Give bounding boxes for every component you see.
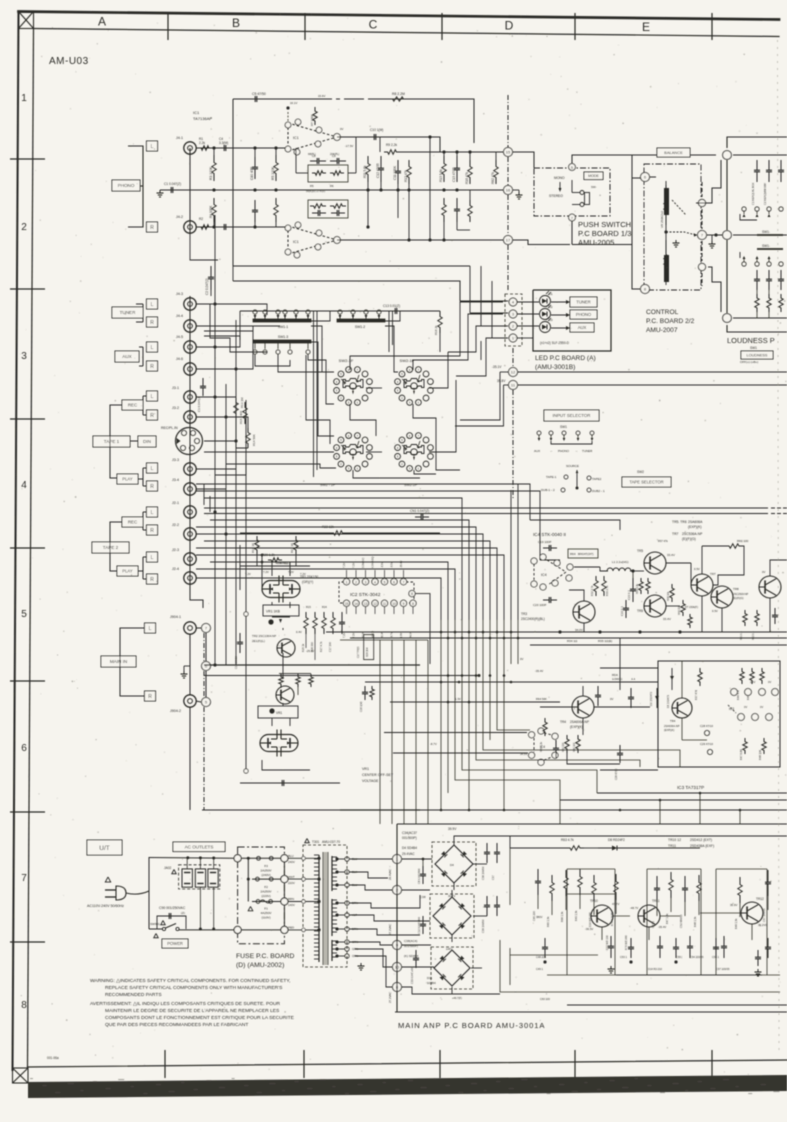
svg-text:R82 47k: R82 47k	[491, 172, 495, 184]
resistor R8	[388, 97, 408, 101]
ground reg 1	[610, 966, 612, 969]
wire matrix extra h1	[204, 330, 253, 332]
svg-text:2SA606A-NP: 2SA606A-NP	[570, 720, 589, 724]
svg-text:2SA606A-NP: 2SA606A-NP	[664, 724, 680, 728]
regulator columns	[537, 869, 539, 881]
transistor TR6	[644, 595, 666, 617]
svg-text:TUNER: TUNER	[576, 300, 590, 305]
jack J4-4	[184, 320, 196, 332]
resistor R37	[698, 668, 702, 686]
wire tape1 play bracket	[143, 467, 146, 469]
grid row ticks	[10, 158, 45, 160]
capacitor C39	[486, 896, 488, 905]
svg-text:R8 2.2M: R8 2.2M	[392, 92, 405, 96]
svg-text:R18 2k: R18 2k	[434, 325, 438, 335]
rotary switch SW2-1P	[407, 367, 413, 373]
svg-text:F2: F2	[264, 885, 268, 889]
wire bundle mid verticals	[440, 620, 442, 664]
svg-text:(EXP)(K): (EXP)(K)	[664, 728, 675, 732]
input group TAPE 1 label	[93, 436, 130, 447]
node pin T2	[393, 886, 402, 895]
IC2 pin row top	[343, 579, 349, 585]
svg-text:2.2k: 2.2k	[199, 141, 205, 145]
switch SW contacts	[580, 191, 584, 195]
svg-text:J4-6: J4-6	[176, 357, 183, 361]
svg-text:2A250V: 2A250V	[260, 890, 272, 894]
resistor R82	[494, 160, 498, 184]
wire tape1 bracket	[110, 405, 122, 478]
svg-text:7.2V: 7.2V	[353, 563, 356, 568]
ground reg 2	[757, 969, 759, 972]
svg-text:C39 100/50: C39 100/50	[481, 919, 485, 933]
node fuse out 140	[281, 898, 288, 905]
IC2 pin row bottom	[343, 600, 349, 606]
node fuse in bottom	[234, 926, 241, 933]
svg-text:VR1: VR1	[362, 767, 369, 771]
input group REC label (tape2)	[122, 517, 143, 527]
wire rail drops	[558, 630, 561, 633]
svg-text:2SA608A: 2SA608A	[688, 520, 703, 524]
node pin 16	[504, 186, 513, 195]
resistor R15	[243, 402, 247, 424]
svg-text:TR2 2SC1364-NP: TR2 2SC1364-NP	[252, 634, 276, 638]
svg-text:R2: R2	[199, 217, 203, 221]
wire tr3 bias	[569, 590, 584, 601]
svg-text:(240V): (240V)	[261, 873, 270, 877]
loudness contact extra	[779, 207, 783, 211]
svg-text:SW1-: SW1-	[762, 230, 770, 234]
grid bottom ticks	[164, 1050, 166, 1078]
LED D2	[540, 309, 551, 320]
wire lower rail 2	[233, 281, 460, 301]
capacitor CN1	[415, 516, 421, 518]
jack J904-2	[184, 695, 196, 707]
svg-text:-36.5V: -36.5V	[585, 927, 593, 931]
loudness contacts row 1	[742, 207, 746, 211]
svg-text:R25 1k: R25 1k	[301, 643, 305, 652]
capacitor C16c	[277, 782, 282, 784]
svg-text:C38: C38	[420, 895, 426, 899]
wire mode pin7 down	[571, 221, 573, 245]
wire fet stage	[261, 554, 264, 557]
svg-text:R5: R5	[310, 184, 314, 188]
svg-text:D1: D1	[549, 292, 553, 296]
wire bars to rotary	[311, 326, 334, 372]
svg-text:-35.4V: -35.4V	[535, 669, 543, 673]
resistor R16	[468, 160, 472, 184]
rotary switch SW2-2P	[407, 433, 413, 439]
resistor R1	[198, 146, 212, 150]
wire rotary outputs	[366, 387, 382, 389]
svg-text:LOUDNESS P: LOUDNESS P	[727, 336, 775, 345]
wire matrix mesh	[196, 304, 267, 315]
wire reg rail y975	[616, 974, 762, 976]
svg-text:6: 6	[393, 580, 395, 584]
transformer secondary winding	[331, 856, 333, 891]
capacitor C22	[625, 600, 627, 608]
svg-text:OFF(+)-(+B+): OFF(+)-(+B+)	[740, 360, 758, 364]
svg-text:RECOMMENDED PARTS: RECOMMENDED PARTS	[105, 992, 162, 998]
svg-text:2SD412 (EXT): 2SD412 (EXT)	[690, 838, 712, 842]
svg-text:001/500P): 001/500P)	[402, 836, 417, 840]
svg-text:TR4: TR4	[670, 719, 676, 723]
wire tape2 play bracket	[143, 556, 146, 558]
svg-text:-8.7V: -8.7V	[430, 742, 437, 746]
capacitor C3 boundary	[202, 378, 204, 386]
wire power verticals to amp	[529, 824, 531, 836]
svg-text:37.2VAC: 37.2VAC	[388, 924, 392, 935]
jack J3-2	[184, 411, 196, 423]
resistor R4	[212, 198, 216, 222]
svg-text:15: 15	[345, 602, 349, 606]
capacitor C48	[544, 938, 546, 947]
svg-text:-35.4V: -35.4V	[400, 560, 403, 568]
svg-text:16: 16	[506, 188, 511, 193]
svg-text:TR7: TR7	[672, 532, 679, 536]
wire secondary taps	[335, 857, 338, 860]
svg-text:C37: C37	[491, 875, 495, 880]
transistor TR5	[644, 552, 666, 574]
node tape2 play R box	[147, 574, 158, 584]
resistor R13a	[442, 156, 446, 182]
svg-text:0.5V: 0.5V	[712, 609, 718, 613]
fuse F1	[256, 900, 260, 904]
svg-text:16.1V: 16.1V	[290, 101, 297, 105]
node pin 5	[202, 698, 211, 707]
svg-text:J2-1: J2-1	[172, 501, 179, 505]
jack J4-3	[184, 298, 196, 310]
svg-text:(E)(F)(G): (E)(F)(G)	[682, 537, 696, 541]
IC4 opamp circles	[531, 558, 537, 564]
wire rotary bottoms to fan	[353, 470, 420, 478]
main board outline	[397, 823, 787, 825]
svg-text:7: 7	[403, 580, 405, 584]
input group MAIN IN label	[101, 656, 136, 667]
resistor R55	[646, 578, 650, 594]
svg-text:R34 1Ω: R34 1Ω	[567, 639, 578, 643]
wire pin17 to mode switch	[513, 240, 570, 245]
wire pin7 right	[707, 234, 723, 236]
wire to power right	[559, 800, 561, 824]
outlet box	[179, 865, 220, 889]
svg-text:2E1(F)(L): 2E1(F)(L)	[252, 639, 265, 643]
svg-text:MAIN IN: MAIN IN	[110, 659, 127, 664]
svg-text:0.5N 4.8Q: 0.5N 4.8Q	[372, 557, 375, 568]
svg-text:C11 100K: C11 100K	[393, 165, 397, 180]
wire fuse rails	[241, 857, 281, 859]
svg-text:VR1: VR1	[276, 711, 282, 715]
svg-text:D4 SD4B4: D4 SD4B4	[402, 846, 417, 850]
svg-text:R37 47K: R37 47K	[694, 690, 698, 700]
LED D3	[540, 322, 551, 333]
svg-text:MAIN ANP P.C BOARD AMU-30: MAIN ANP P.C BOARD AMU-3001A	[398, 1021, 545, 1030]
svg-text:0V: 0V	[340, 127, 344, 131]
svg-text:C49 1: C49 1	[536, 967, 543, 971]
svg-text:0V: 0V	[744, 705, 747, 709]
svg-text:R35 1Ω(E): R35 1Ω(E)	[598, 639, 612, 643]
input group TUNER label	[112, 307, 143, 318]
dual FET Q1 upper	[262, 581, 300, 598]
wire jack ground bus	[189, 148, 191, 234]
outlet 2	[195, 869, 205, 887]
capacitor C14a	[456, 198, 458, 209]
svg-text:R: R	[148, 694, 152, 700]
svg-text:DIN: DIN	[143, 439, 151, 444]
svg-text:SW2-1F: SW2-1F	[339, 358, 354, 363]
svg-text:R: R	[150, 577, 154, 583]
svg-text:0V: 0V	[762, 570, 766, 574]
wire C13 rail	[240, 310, 440, 312]
transistor TR11	[638, 905, 660, 927]
jack J3-1	[184, 391, 196, 403]
VR1 trim box upper	[263, 605, 299, 616]
svg-text:R32 2.7k: R32 2.7k	[590, 585, 594, 596]
node pin 8 control	[641, 285, 650, 294]
wire cross rails mid	[204, 664, 420, 666]
svg-text:DUB-1→2: DUB-1→2	[541, 488, 555, 492]
wire loudness feed top	[733, 154, 787, 156]
node tape1 rec L box	[147, 391, 158, 401]
svg-text:(Z): (Z)	[181, 911, 185, 915]
capacitor C8 smoothing	[422, 866, 424, 874]
svg-text:SW1: SW1	[750, 346, 757, 350]
resistor R40	[576, 735, 580, 753]
svg-text:B: B	[232, 16, 240, 30]
svg-text:J2-4: J2-4	[172, 567, 179, 571]
IC2 pin 8	[409, 590, 415, 596]
wire preamp left edge	[232, 99, 234, 266]
svg-text:R7 100K: R7 100K	[310, 114, 314, 126]
resistor R14	[246, 428, 250, 448]
svg-text:8: 8	[21, 1000, 27, 1011]
wire lower links	[582, 686, 584, 696]
input group REC label (tape1)	[122, 400, 143, 410]
svg-text:C12 47/35: C12 47/35	[376, 163, 380, 178]
svg-text:SW1-3: SW1-3	[278, 335, 288, 339]
svg-text:R49 1.5k: R49 1.5k	[734, 918, 738, 929]
node pin 17	[504, 236, 513, 245]
svg-text:R47 6.8K: R47 6.8K	[739, 749, 743, 760]
wire regulator links	[601, 927, 603, 940]
svg-text:REPLACE SAFETY CRITICAL COMPON: REPLACE SAFETY CRITICAL COMPONENTS ONLY …	[105, 985, 283, 991]
label U/T	[87, 840, 122, 855]
capacitor C4b	[218, 226, 224, 228]
svg-text:(GR)(Y): (GR)(Y)	[302, 580, 313, 584]
svg-text:-17.5V: -17.5V	[345, 144, 353, 148]
node fuse in top	[234, 855, 241, 862]
wire x246 extension	[245, 560, 247, 771]
svg-text:R27 4.7k: R27 4.7k	[319, 641, 323, 652]
ground transformer	[360, 963, 362, 966]
svg-text:R15 1400: R15 1400	[239, 411, 243, 424]
svg-text:R64: R64	[570, 552, 576, 556]
box C17 R29	[364, 635, 374, 660]
svg-text:380V: 380V	[536, 915, 543, 919]
svg-text:P.C BOARD 1/3: P.C BOARD 1/3	[578, 229, 631, 238]
node mid balance 2	[698, 263, 705, 270]
svg-text:SW2-1P: SW2-1P	[400, 358, 415, 363]
svg-text:C13 0.01(Z): C13 0.01(Z)	[383, 304, 400, 308]
svg-text:R4 100K: R4 100K	[209, 205, 213, 218]
svg-text:R48 1.5k: R48 1.5k	[693, 916, 697, 927]
node pin 7 control	[698, 231, 707, 240]
svg-text:R12 47k: R12 47k	[404, 170, 408, 182]
svg-text:D11: D11	[427, 976, 433, 980]
capacitor C31	[619, 745, 621, 753]
svg-text:PHONO: PHONO	[118, 183, 135, 188]
svg-text:IC1: IC1	[293, 136, 299, 140]
svg-text:R19 1K: R19 1K	[251, 543, 255, 553]
wire loudness bottom	[733, 317, 787, 319]
transformer primary winding	[318, 855, 320, 962]
capacitor C54	[675, 938, 677, 947]
capacitor C2	[210, 266, 212, 277]
capacitor C23	[632, 578, 634, 589]
svg-text:6: 6	[21, 743, 27, 754]
wire rail 11	[518, 384, 787, 386]
svg-text:R9 2.2k: R9 2.2k	[386, 143, 397, 147]
capacitor C55b bottom	[723, 936, 725, 946]
resistor R56	[639, 578, 643, 594]
svg-text:11: 11	[383, 602, 387, 606]
label POWER	[162, 939, 188, 948]
input group DIN label	[138, 436, 156, 447]
wire rail y810	[202, 809, 787, 811]
resistor R62	[755, 610, 759, 626]
node junction C	[723, 314, 732, 323]
svg-text:(E)(F)(G): (E)(F)(G)	[733, 596, 744, 600]
wire rail y790	[597, 792, 787, 794]
node mode pin top	[569, 164, 576, 171]
input group PLAY label (tape1)	[117, 474, 138, 484]
capacitor C54b bottom	[689, 936, 691, 946]
transistor TR9	[759, 576, 781, 598]
wire R drops	[367, 190, 369, 227]
svg-text:C2 REP(J)/BB 6BF: C2 REP(J)/BB 6BF	[763, 183, 767, 205]
capacitor C13	[388, 310, 395, 312]
svg-text:J3-2: J3-2	[172, 406, 179, 410]
svg-text:(EXP)(K): (EXP)(K)	[688, 525, 702, 529]
capacitor C12b	[422, 916, 424, 924]
svg-text:33.4V: 33.4V	[667, 553, 675, 557]
svg-text:FUSE P.C. BOARD: FUSE P.C. BOARD	[236, 953, 295, 960]
op-amp IC1b	[287, 226, 289, 254]
mode switch block	[534, 168, 610, 216]
svg-text:REC: REC	[128, 520, 137, 525]
svg-text:204(PL): 204(PL)	[330, 152, 339, 156]
svg-text:29.4VAC: 29.4VAC	[402, 852, 415, 856]
node pin 6	[202, 662, 211, 671]
svg-text:PLAY: PLAY	[122, 569, 133, 574]
switch SW1-3 bar	[253, 340, 311, 343]
svg-text:POWER: POWER	[167, 941, 183, 946]
wire R22 rail	[240, 529, 460, 531]
svg-text:(110V): (110V)	[261, 916, 270, 920]
transformer core	[323, 852, 328, 965]
node pin 12	[509, 368, 518, 377]
wire matrix to LED pins	[350, 302, 503, 370]
transistor TR4	[572, 696, 594, 718]
svg-text:AMU-2007: AMU-2007	[646, 327, 678, 334]
wire vertical pair B	[388, 311, 390, 352]
svg-text:L: L	[151, 394, 154, 400]
node tape2 rec R box	[147, 525, 158, 535]
jack J2-2	[184, 528, 196, 540]
capacitor C13a	[456, 156, 458, 168]
wire op-amp R output	[337, 239, 503, 241]
svg-text:C10 1(M): C10 1(M)	[370, 128, 383, 132]
svg-text:35.2VG: 35.2VG	[758, 923, 768, 927]
svg-text:C17 TP(5): C17 TP(5)	[357, 646, 360, 658]
wire mode to control top	[572, 155, 716, 164]
svg-text:C29 47/10: C29 47/10	[700, 742, 713, 746]
svg-text:SW2: SW2	[637, 470, 644, 474]
svg-text:C28 47/10: C28 47/10	[615, 768, 618, 780]
resistor R83	[468, 200, 472, 222]
svg-text:0V: 0V	[610, 697, 614, 701]
svg-text:A: A	[98, 15, 106, 29]
resistor R14a	[442, 198, 446, 222]
resistor R63	[566, 846, 584, 850]
svg-text:LED P.C BOARD (A): LED P.C BOARD (A)	[535, 355, 596, 362]
wire bridge3	[401, 944, 431, 946]
svg-text:TR5. TR6: TR5. TR6	[672, 520, 687, 524]
resistor R61	[743, 610, 747, 626]
wire sw13 contacts down	[255, 354, 290, 366]
fuse F3	[257, 856, 261, 860]
node tape1 play L box	[147, 463, 158, 473]
switch SW1-1 bar	[253, 319, 311, 322]
svg-text:R26 330: R26 330	[310, 642, 314, 652]
svg-text:L: L	[149, 626, 152, 632]
wire pin15 to mode switch	[513, 152, 534, 168]
svg-text:TR5: TR5	[637, 549, 643, 553]
svg-text:TR11: TR11	[652, 899, 660, 903]
IC2 dashed outline	[339, 582, 344, 603]
wire pin6 junction	[650, 176, 656, 178]
wire reg left elbows	[500, 940, 547, 992]
svg-text:4A250V: 4A250V	[260, 911, 272, 915]
node pin 6 control	[641, 173, 650, 182]
svg-text:C23 0.1: C23 0.1	[627, 590, 631, 600]
svg-text:R: R	[150, 528, 154, 534]
wire long rails lower	[326, 631, 787, 633]
svg-text:4: 4	[374, 580, 376, 584]
svg-text:D: D	[505, 19, 514, 33]
svg-text:(EXP)(K): (EXP)(K)	[570, 725, 583, 729]
corner cross box bottom-left	[13, 1068, 29, 1083]
wire long vertical x215	[214, 215, 216, 665]
svg-text:TUNER: TUNER	[582, 449, 593, 453]
svg-text:TAPE 2: TAPE 2	[103, 545, 119, 550]
svg-text:BALANCE: BALANCE	[664, 150, 683, 155]
jack J2-4	[184, 572, 196, 584]
LED D1	[540, 296, 551, 307]
svg-text:D8 RD24F2: D8 RD24F2	[608, 838, 625, 842]
wire IC4 out	[574, 566, 600, 568]
resistor R12	[407, 160, 411, 184]
capacitor C53	[630, 938, 632, 947]
resistor R21	[294, 536, 298, 554]
capacitor C26	[597, 686, 599, 695]
svg-text:47.7V: 47.7V	[612, 902, 619, 906]
svg-text:J4-2: J4-2	[176, 215, 183, 219]
svg-text:LOUDNESS: LOUDNESS	[747, 353, 768, 357]
svg-text:R63 4.7k: R63 4.7k	[561, 838, 574, 842]
wire preamp bottom rail	[233, 265, 470, 267]
svg-text:D2: D2	[549, 305, 553, 309]
svg-text:7.2V: 7.2V	[343, 633, 346, 638]
